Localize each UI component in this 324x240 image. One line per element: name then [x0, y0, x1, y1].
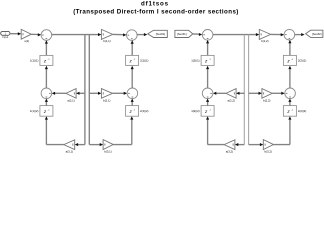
- svg-text:b(2,1): b(2,1): [103, 99, 110, 103]
- svg-text:a(3,1): a(3,1): [66, 149, 73, 153]
- svg-text:b(1,2): b(1,2): [261, 39, 268, 43]
- svg-text:df1tsos: df1tsos: [141, 1, 169, 8]
- svg-text:2(1)(2): 2(1)(2): [140, 109, 148, 113]
- svg-text:b(3,2): b(3,2): [265, 149, 272, 153]
- svg-text:a(3,2): a(3,2): [226, 149, 233, 153]
- svg-text:a(2,1): a(2,1): [67, 99, 74, 103]
- svg-text:[Sec#2]: [Sec#2]: [312, 32, 322, 36]
- svg-text:1(1)(1): 1(1)(1): [30, 59, 38, 63]
- svg-text:2(2)(1): 2(2)(1): [298, 59, 306, 63]
- svg-text:a(2,2): a(2,2): [228, 99, 235, 103]
- svg-text:2(2)(2): 2(2)(2): [298, 109, 306, 113]
- svg-text:1(1)(2): 1(1)(2): [30, 109, 38, 113]
- svg-text:2(1)(1): 2(1)(1): [140, 59, 148, 63]
- svg-text:Input: Input: [2, 35, 8, 39]
- svg-text:1(2)(2): 1(2)(2): [191, 109, 199, 113]
- svg-text:b(2,2): b(2,2): [263, 99, 270, 103]
- svg-text:[Sec#1]: [Sec#1]: [156, 32, 166, 36]
- svg-text:(Transposed Direct-form I seco: (Transposed Direct-form I second-order s…: [73, 8, 239, 15]
- svg-text:1(2)(1): 1(2)(1): [191, 59, 199, 63]
- svg-text:b(3,1): b(3,1): [104, 149, 111, 153]
- svg-text:b(1,1): b(1,1): [103, 39, 110, 43]
- svg-text:[Sec#1]: [Sec#1]: [177, 32, 187, 36]
- svg-text:s(1): s(1): [24, 39, 29, 43]
